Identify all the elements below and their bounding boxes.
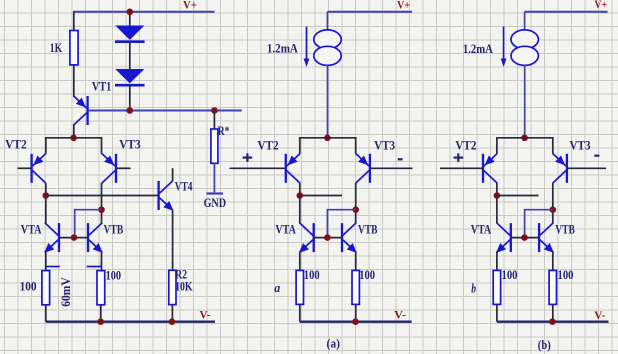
junction V+/diodes xyxy=(127,9,134,16)
wire + input a xyxy=(230,167,286,169)
wire V- rail left xyxy=(46,321,215,323)
junction VT2 collector a xyxy=(297,192,304,199)
svg-text:(a): (a) xyxy=(327,336,341,351)
svg-text:1.2mA: 1.2mA xyxy=(267,41,299,56)
resistor 100 (VTB) a xyxy=(352,270,359,304)
resistor R2 xyxy=(169,270,176,304)
svg-text:V+: V+ xyxy=(183,0,197,11)
junction VT3 emitter xyxy=(98,206,105,213)
svg-text:VT2: VT2 xyxy=(258,138,279,153)
wire to V- a1 xyxy=(299,304,301,321)
svg-text:1.2mA: 1.2mA xyxy=(463,41,494,56)
resistor 100 (VTA) b xyxy=(493,270,500,304)
svg-text:VT1: VT1 xyxy=(92,78,111,93)
wire to VT4 base xyxy=(46,195,159,197)
wire VTB emitter to R100 xyxy=(101,252,103,270)
junction base rail xyxy=(71,234,78,241)
wire VT3 base stub xyxy=(116,167,131,169)
wire to V- a2 xyxy=(355,304,357,321)
wire current source down b xyxy=(524,65,526,138)
transistor VTB xyxy=(88,223,103,253)
resistor 1K xyxy=(70,31,78,65)
wire VT4 emitter to R2 xyxy=(172,210,174,270)
wire R100 to V- rail xyxy=(45,305,47,322)
junction diodes/base rail xyxy=(127,107,134,114)
wire VT2/VT3 emitter top rail xyxy=(46,138,102,154)
resistor R* xyxy=(211,129,218,163)
transistor VTA xyxy=(44,223,59,253)
resistor 100 (VTB) xyxy=(97,271,105,305)
minus label b xyxy=(594,155,599,157)
wire stub a xyxy=(300,195,342,197)
wire VT3 to VTB xyxy=(101,183,103,223)
svg-text:(b): (b) xyxy=(538,337,551,352)
wire V+ rail circuit a xyxy=(327,11,412,13)
svg-text:VTA: VTA xyxy=(471,222,492,237)
svg-text:VTB: VTB xyxy=(555,222,575,237)
current source I2 1.2mA xyxy=(501,27,539,68)
wire - input b xyxy=(567,167,606,169)
svg-text:V-: V- xyxy=(200,308,211,322)
tick 60mV right terminal xyxy=(87,266,101,268)
svg-text:V-: V- xyxy=(394,308,406,322)
svg-text:60mV: 60mV xyxy=(58,277,73,307)
svg-text:b: b xyxy=(471,281,476,296)
transistor VT2b xyxy=(483,154,497,184)
svg-text:R*: R* xyxy=(218,123,230,138)
svg-text:100: 100 xyxy=(502,267,518,282)
wire R2 to V- rail xyxy=(171,305,173,322)
transistor VTBa xyxy=(342,223,357,253)
wire VT2/VT3 top rail a xyxy=(300,138,356,154)
wire VTA emitter to R100 xyxy=(45,252,47,270)
junction emitters a xyxy=(324,135,331,142)
svg-text:VTA: VTA xyxy=(21,222,42,237)
wire R* to GND xyxy=(213,163,215,192)
wire VT4 collector stub xyxy=(172,168,174,181)
wire VT2 to VTA b xyxy=(496,183,498,223)
wire V+ to current source xyxy=(326,12,328,30)
svg-text:VT3: VT3 xyxy=(374,138,395,153)
junction VT2/VTA/wire to VT4 xyxy=(43,192,50,199)
wire elbow to VTA/VTB bases xyxy=(75,210,102,238)
wire base rail b xyxy=(511,237,539,239)
ground bar xyxy=(206,192,223,194)
wire VT1 collector down xyxy=(73,125,75,138)
junction V- rail / R2 xyxy=(169,318,176,325)
wire VT2 collector to VTA xyxy=(45,183,47,223)
svg-text:10K: 10K xyxy=(175,278,193,293)
wire base rail a xyxy=(314,237,342,239)
plus label b xyxy=(454,153,464,162)
wire V+ to current source b xyxy=(524,12,526,30)
svg-text:100: 100 xyxy=(359,267,375,282)
wire VT2/VT3 top rail b xyxy=(497,138,553,154)
svg-text:VTB: VTB xyxy=(358,222,378,237)
junction base rail/R* xyxy=(211,107,218,114)
svg-text:1K: 1K xyxy=(50,40,63,55)
wire V+ to R 1K xyxy=(73,12,75,31)
wire - input a xyxy=(370,167,413,169)
junction base rail b xyxy=(521,234,528,241)
wire + input b xyxy=(440,167,483,169)
wire elbow to bases b xyxy=(525,210,553,238)
svg-text:100: 100 xyxy=(558,267,574,282)
transistor VT4 xyxy=(159,181,174,211)
wire VTA/VTB base rail xyxy=(59,237,88,239)
wire D1 to D2 xyxy=(129,42,131,69)
wire V- rail b xyxy=(497,321,609,323)
junction V- rail / R100b xyxy=(97,318,104,325)
wire R100b to V- rail xyxy=(100,305,102,322)
svg-text:VT3: VT3 xyxy=(119,137,141,152)
wire D2 to base rail xyxy=(129,85,131,110)
wire V+ to D1 xyxy=(129,12,131,26)
svg-text:V+: V+ xyxy=(397,0,410,12)
wire to V- b1 xyxy=(496,304,498,321)
junction VT3 a xyxy=(352,206,359,213)
wire VT2 base stub xyxy=(18,167,32,169)
wire elbow to bases a xyxy=(327,210,355,238)
junction VT2 collector b xyxy=(494,192,501,199)
resistor 100 (VTA) a xyxy=(296,270,303,304)
transistor VT3a xyxy=(356,154,370,184)
junction emitters b xyxy=(521,135,528,142)
svg-text:V-: V- xyxy=(594,308,605,322)
wire 1K to VT1 emitter xyxy=(73,65,75,97)
transistor VT1 xyxy=(73,96,87,126)
svg-text:VTA: VTA xyxy=(275,222,296,237)
junction VT3 b xyxy=(550,206,557,213)
diode D2 xyxy=(115,69,145,85)
junction VT1 collector xyxy=(70,135,77,142)
wire VT2 to VTA a xyxy=(299,183,301,223)
current source I1 1.2mA xyxy=(304,27,342,68)
wire VT3 to VTB b xyxy=(552,183,554,223)
transistor VTBb xyxy=(539,223,554,253)
svg-text:GND: GND xyxy=(204,195,226,210)
wire V+ rail left circuit xyxy=(73,11,214,13)
wire VT1 base rail xyxy=(88,110,242,112)
wire VTB emitter a xyxy=(355,252,357,270)
diode D1 xyxy=(115,26,145,42)
wire V- rail a xyxy=(300,321,412,323)
wire current source down xyxy=(327,65,329,138)
resistor 100 (VTA) xyxy=(42,271,50,305)
svg-text:VT2: VT2 xyxy=(5,137,27,152)
transistor VT2a xyxy=(286,154,300,184)
svg-text:100: 100 xyxy=(304,267,320,282)
transistor VT2 xyxy=(32,154,46,184)
transistor VTAb xyxy=(496,223,511,253)
tick 60mV left terminal xyxy=(47,266,60,268)
svg-text:100: 100 xyxy=(106,267,122,282)
svg-text:VT2: VT2 xyxy=(455,138,476,153)
wire stub b xyxy=(497,195,539,197)
junction V- rail b xyxy=(549,318,556,325)
wire VTA emitter a xyxy=(299,252,301,270)
wire VT3 to VTB a xyxy=(355,183,357,223)
wire V+ rail circuit b xyxy=(525,11,608,13)
svg-text:a: a xyxy=(274,280,280,295)
junction V- rail a xyxy=(352,318,359,325)
resistor 100 (VTB) b xyxy=(549,270,556,304)
junction base rail a xyxy=(324,234,331,241)
wire VTA emitter b xyxy=(496,252,498,270)
wire to V- b2 xyxy=(552,304,554,321)
svg-text:V+: V+ xyxy=(594,0,607,11)
plus label a xyxy=(243,153,253,162)
svg-text:100: 100 xyxy=(20,279,37,294)
transistor VTAa xyxy=(299,223,314,253)
transistor VT3b xyxy=(553,154,567,184)
minus label a xyxy=(398,158,403,160)
svg-text:VT3: VT3 xyxy=(570,138,591,153)
transistor VT3 xyxy=(102,154,116,184)
wire to R* xyxy=(213,111,215,130)
svg-text:VTB: VTB xyxy=(104,222,124,237)
wire VTB emitter b xyxy=(552,252,554,270)
svg-text:VT4: VT4 xyxy=(175,179,193,194)
